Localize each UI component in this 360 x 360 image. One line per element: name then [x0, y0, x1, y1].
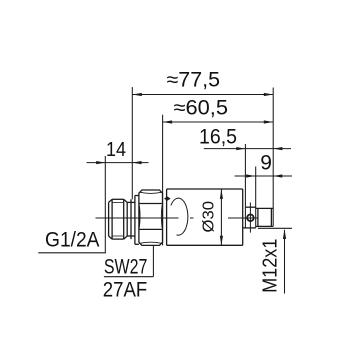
thread root line bottom: [112, 235, 124, 237]
barrel top edge: [256, 207, 274, 209]
thread G1/2A cap end face: [108, 202, 110, 236]
dimension 14 right arrow: [132, 161, 141, 164]
svg-text:16,5: 16,5: [199, 126, 237, 149]
rotation arrowhead: [164, 196, 171, 200]
thread chamfer top diagonal: [109, 199, 113, 202]
diameter 30 top arrow: [220, 189, 223, 199]
svg-text:≈60,5: ≈60,5: [174, 97, 229, 120]
connector ring top edge: [245, 206, 255, 208]
thread root line top: [112, 201, 124, 203]
svg-text:Ø30: Ø30: [200, 201, 217, 233]
dimension 16.5 line: [204, 148, 291, 150]
svg-text:27AF: 27AF: [103, 279, 148, 302]
M12x1 leader line: [284, 230, 286, 294]
thread OD bottom edge: [112, 238, 124, 240]
dimension 9 left arrow: [246, 174, 255, 177]
dimension 9 line: [235, 175, 293, 177]
rotation arc: [171, 198, 188, 235]
extension line connector end (77.5/60.5/16.5/9 right): [272, 88, 274, 227]
extension line connector ring left (16.5 left): [244, 144, 246, 228]
dimension 16.5 left arrow: [236, 147, 245, 150]
SW27 leader underline: [104, 276, 153, 278]
diameter 30 dimension line: [220, 189, 222, 245]
flange top edge: [135, 195, 139, 197]
extension line flange face (77.5 left / 14 right): [131, 87, 133, 199]
thread runout bottom diagonal: [124, 236, 128, 239]
hex middle facet right arc: [160, 205, 163, 228]
dimension 77.5 left arrow: [132, 93, 142, 96]
barrel inner vertical left: [257, 208, 259, 226]
hex facet line lower: [139, 228, 163, 230]
flange bottom edge: [135, 243, 139, 245]
svg-text:9: 9: [260, 152, 272, 175]
M12x1 leader arrow: [283, 229, 286, 239]
hex facet line upper: [139, 203, 163, 205]
barrel inner vertical right: [270, 208, 272, 226]
flange inner line: [134, 196, 136, 245]
barrel bottom edge: [256, 225, 274, 227]
hex bottom facet chamfer arc: [139, 242, 162, 243]
extension line barrel left (9 left): [255, 167, 257, 228]
body bottom edge: [167, 244, 243, 246]
SW27 leader vertical: [152, 245, 154, 276]
connector ring bottom edge: [243, 227, 256, 229]
svg-text:G1/2A: G1/2A: [45, 228, 100, 251]
G1/2A leader underline: [38, 252, 106, 254]
dimension 16.5 right arrow: [273, 147, 282, 150]
dimension 77.5 right arrow: [264, 93, 274, 96]
dimension 9 right arrow: [273, 174, 282, 177]
svg-text:SW27: SW27: [104, 255, 147, 278]
centerline: [96, 217, 179, 219]
svg-text:M12x1: M12x1: [260, 239, 282, 293]
connector face cross vertical: [249, 202, 251, 232]
hex middle facet left arc: [138, 205, 141, 228]
thread runout vertical: [130, 199, 132, 239]
thread OD top edge: [112, 198, 124, 200]
dimension 14 left arrow: [96, 161, 105, 164]
diameter 30 bottom arrow: [220, 236, 223, 246]
dimension 14 line: [87, 162, 149, 164]
body right edge: [242, 189, 244, 245]
svg-text:≈77,5: ≈77,5: [167, 69, 221, 92]
body left edge: [166, 189, 168, 245]
extension line left thread tip: [104, 156, 106, 253]
hex top facet chamfer arc: [139, 192, 162, 193]
M12 thread extension line: [258, 227, 292, 229]
groove top edge: [127, 201, 135, 203]
thread vertical end of full thread: [123, 199, 125, 239]
dimension 60.5 left arrow: [163, 120, 173, 123]
extension line hex right (60.5 left): [162, 115, 164, 246]
hex nut SW27 outline: [139, 190, 163, 245]
dimension 60.5 right arrow: [264, 120, 274, 123]
dimension 77.5 line: [132, 94, 273, 96]
connector face circle: [247, 215, 254, 222]
thread chamfer bottom diagonal: [109, 236, 113, 239]
thread runout top diagonal: [124, 199, 128, 202]
dimension 60.5 line: [163, 121, 274, 123]
groove vertical left: [126, 202, 128, 236]
svg-text:14: 14: [106, 139, 126, 161]
thread vertical chamfer boundary: [111, 199, 113, 239]
groove bottom edge: [127, 235, 135, 237]
body top edge: [167, 188, 243, 190]
